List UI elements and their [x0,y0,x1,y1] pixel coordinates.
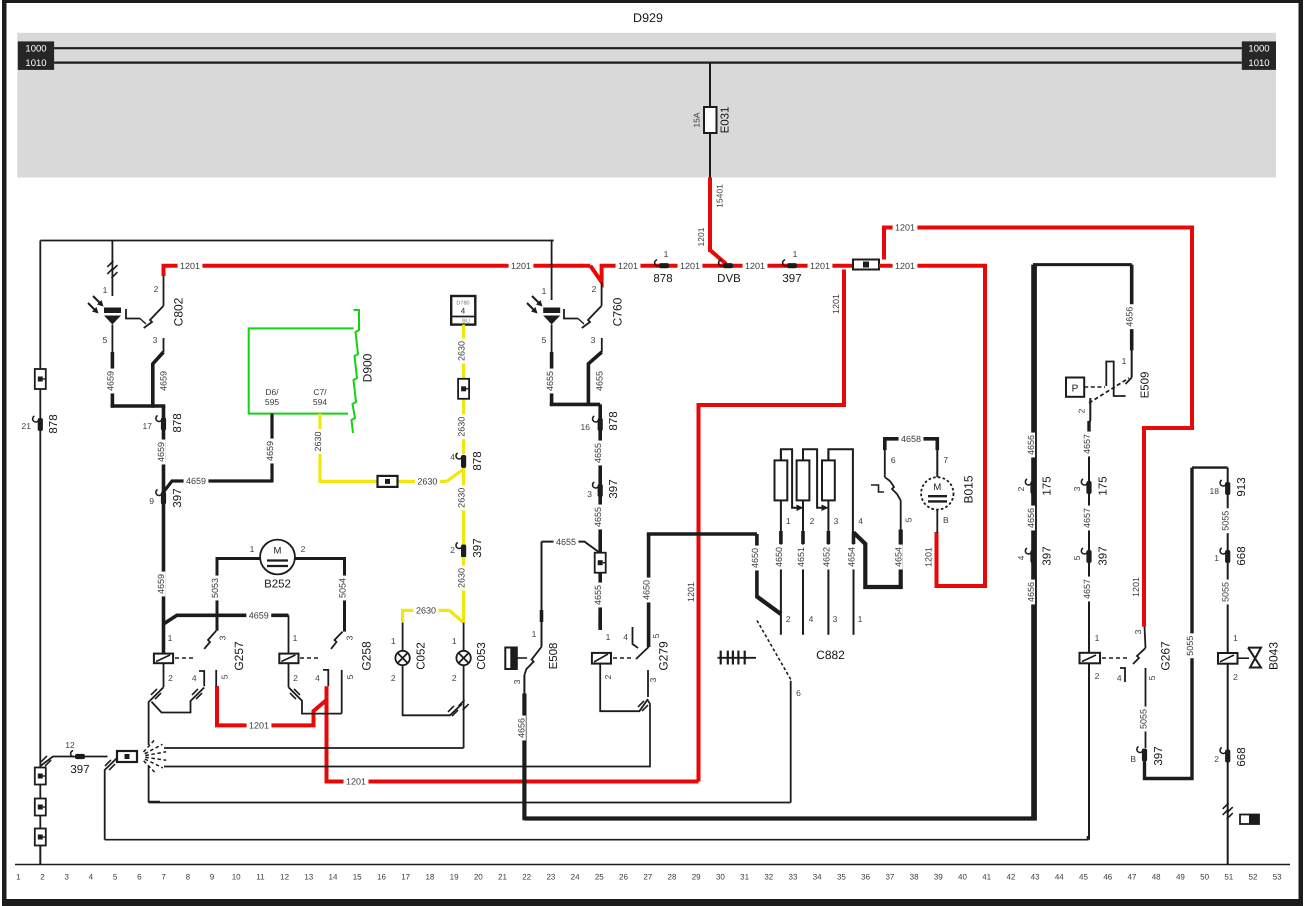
svg-text:P: P [1072,384,1079,395]
svg-text:1: 1 [664,249,669,259]
svg-text:913: 913 [1236,477,1248,496]
B015 pin 7 wire [936,448,938,477]
wire 4659 junction horizontal [111,404,166,408]
svg-text:46: 46 [1103,873,1112,882]
label 4656 [1025,580,1035,605]
connector 397 pin 1 on red line [787,263,797,268]
svg-text:45: 45 [1079,873,1088,882]
svg-text:36: 36 [861,873,870,882]
svg-text:3: 3 [587,489,592,499]
svg-text:25: 25 [595,873,604,882]
wire to E508 pin 1 [541,542,543,647]
svg-text:4: 4 [461,307,466,316]
svg-text:2: 2 [450,545,455,555]
svg-text:31: 31 [740,873,749,882]
svg-text:2630: 2630 [457,488,467,508]
svg-text:15401: 15401 [715,184,725,208]
label 5055 [1138,707,1148,732]
svg-text:4656: 4656 [1026,435,1036,455]
svg-text:14: 14 [329,873,338,882]
svg-text:18: 18 [1210,486,1220,496]
connector pin 18 [1225,482,1230,495]
label 4656 [1025,506,1035,531]
label 4655 branch [554,536,579,546]
svg-text:3: 3 [591,335,596,345]
svg-text:B015: B015 [961,475,975,503]
G279 bottom link wire [600,664,648,712]
label 2630 [415,476,440,486]
label 2630 [456,566,466,591]
svg-text:9: 9 [210,873,215,882]
svg-text:C882: C882 [816,648,845,662]
label 4650 [749,546,759,571]
connector DVB on red line [723,263,733,268]
label 5055 [1220,508,1230,533]
svg-text:1: 1 [103,285,108,295]
svg-text:4655: 4655 [593,507,603,527]
rail B wire [164,701,650,767]
svg-text:3: 3 [345,635,355,640]
wire 4655 from C760 pin 5 [550,352,554,406]
G257 switch arm [204,631,216,649]
E509 pin 2 wire [1089,398,1090,653]
inline connector slashes [1223,803,1229,809]
svg-text:5: 5 [542,335,547,345]
svg-text:2: 2 [603,674,613,679]
connector 397 pin 4 [1030,550,1035,563]
wire 4650 top link [647,532,757,536]
junction box on 4655 [595,553,606,573]
wire 4650 right vertical [755,534,759,598]
wire from bus 1010 to fuse E031 [709,63,711,107]
svg-text:397: 397 [782,273,801,285]
svg-text:D6/: D6/ [265,387,279,397]
connector 175 pin 3 [1086,481,1091,494]
svg-text:4659: 4659 [159,371,169,391]
svg-text:39: 39 [934,873,943,882]
svg-text:C760: C760 [610,297,624,326]
bus wire 1010 [54,61,1242,63]
svg-text:1201: 1201 [895,223,915,233]
svg-text:5: 5 [1147,675,1157,680]
svg-text:G267: G267 [1158,641,1172,671]
wire fuse to gray band edge [709,133,711,178]
label 4659 [155,572,165,597]
svg-text:33: 33 [789,873,798,882]
G279 relay coil [592,653,611,664]
svg-text:5054: 5054 [337,578,347,598]
wire 2630 yellow from D900 C7 [318,414,321,483]
svg-text:BU: BU [462,319,470,325]
svg-text:17: 17 [401,873,410,882]
label 4659 [155,440,165,465]
svg-text:21: 21 [498,873,507,882]
svg-text:1: 1 [452,636,457,646]
G279 pin 1 [598,613,602,628]
label 1201 [247,720,272,730]
svg-text:M: M [274,546,282,557]
wire C052 pin 2 [403,665,462,715]
G257 coil link dashed [175,657,196,659]
G257 relay coil [154,654,173,664]
svg-text:2630: 2630 [313,431,323,451]
connector 397 pin B [1142,749,1147,762]
red wire 1201 G257-G258 link [217,686,327,725]
svg-text:4650: 4650 [774,547,784,567]
svg-text:2630: 2630 [417,477,437,487]
wire 5055 loop [1145,468,1193,779]
svg-text:3: 3 [1072,486,1082,491]
svg-text:2630: 2630 [416,606,436,616]
G257 pin2-pin4 link [152,688,205,713]
svg-text:B252: B252 [264,579,291,591]
D900 shield zigzag [352,310,360,433]
lamp C052 [402,623,404,651]
G267 coil link dashed [1102,657,1128,659]
svg-text:35: 35 [837,873,846,882]
svg-text:B: B [1130,754,1136,764]
wire drop to C760 [551,240,553,300]
wire 4652 down to C882 [827,500,829,634]
svg-text:13: 13 [304,873,313,882]
label 2630 [456,485,466,510]
wire 2630 yellow lower [462,557,465,623]
junction box at bottom right [1240,815,1259,825]
C760 LED photodiode symbol [543,308,560,314]
connector 878 pin 4 [461,455,466,468]
wire 4654 down to C882 [853,532,855,634]
svg-text:397: 397 [1153,746,1165,765]
scale line [15,864,1290,866]
G258 pin 5 contact [341,670,343,714]
svg-text:2630: 2630 [457,417,467,437]
label 4659 [264,439,274,464]
svg-text:4656: 4656 [1125,307,1135,327]
wire drop to C802 with inline connector [111,241,113,297]
svg-text:B: B [943,515,949,525]
svg-text:397: 397 [472,538,484,557]
svg-text:52: 52 [1249,873,1258,882]
svg-text:2: 2 [391,673,396,683]
svg-text:595: 595 [265,397,279,407]
svg-text:1201: 1201 [680,261,700,271]
svg-text:2: 2 [592,284,597,294]
svg-text:DVB: DVB [717,273,741,285]
connector 397 pin 9 [161,492,166,505]
svg-text:C802: C802 [171,297,185,326]
svg-text:397: 397 [1042,546,1054,565]
G267 relay coil [1080,653,1101,664]
svg-text:4655: 4655 [593,585,603,605]
B015 pin B wire [936,510,938,533]
svg-text:1201: 1201 [810,261,830,271]
chain wire R1 to wire 2 [781,449,800,508]
svg-text:1010: 1010 [25,58,46,69]
resistor R2 [802,449,804,460]
svg-text:4: 4 [1016,555,1026,560]
svg-text:27: 27 [643,873,652,882]
label 4655 [544,369,554,394]
B015 switch pin 5 wire [900,500,902,532]
wire 4656 column [1031,265,1035,819]
harness fan symbol [144,739,156,752]
svg-text:4659: 4659 [106,371,116,391]
svg-text:3: 3 [834,516,839,526]
connector 668 pin 1 [1225,550,1230,563]
svg-text:1: 1 [1214,553,1219,563]
svg-text:1: 1 [16,873,21,882]
svg-text:4: 4 [809,614,814,624]
svg-text:10: 10 [232,873,241,882]
G279 pin 4 hook [633,627,639,648]
label 1201 bottom [344,776,369,786]
svg-text:2: 2 [168,673,173,683]
svg-text:1: 1 [168,633,173,643]
wire 4650 from G279 pin 5 [647,534,651,647]
svg-text:2630: 2630 [457,568,467,588]
svg-text:175: 175 [1042,476,1054,495]
svg-text:2: 2 [154,284,159,294]
svg-text:5: 5 [220,674,230,679]
svg-text:20: 20 [474,873,483,882]
motor B015 dashed circle [921,477,953,509]
svg-text:2: 2 [1095,671,1100,681]
svg-text:1201: 1201 [924,547,934,567]
svg-text:5: 5 [1072,555,1082,560]
svg-text:3: 3 [512,679,522,684]
wire 4655 junction horizontal [550,403,600,407]
C802 actuator bracket [126,309,140,319]
G258 coil link dashed [300,657,321,659]
svg-text:4657: 4657 [1082,434,1092,454]
svg-text:4: 4 [315,673,320,683]
svg-text:D929: D929 [633,11,663,25]
red wire 1201 bottom rail [327,700,699,782]
G257 pin 4 hook [199,671,204,686]
G257 pin 2 wire to fan [163,663,165,687]
svg-text:32: 32 [764,873,773,882]
label 4659 branch [184,475,209,485]
wire 4655 main down [598,404,602,630]
svg-text:16: 16 [377,873,386,882]
svg-text:397: 397 [1098,546,1110,565]
svg-text:47: 47 [1128,873,1137,882]
G258 pin 1 wire [288,615,290,653]
svg-text:878: 878 [472,451,484,470]
svg-text:4659: 4659 [249,611,269,621]
label 4650 [641,578,651,603]
svg-text:51: 51 [1224,873,1233,882]
svg-text:4: 4 [1117,673,1122,683]
junction box before fan [117,751,137,762]
junction box on left rail 4 [35,829,46,846]
svg-text:50: 50 [1200,873,1209,882]
svg-text:E509: E509 [1140,372,1152,399]
label 2630 [414,605,439,615]
svg-text:3: 3 [833,614,838,624]
connector 668 pin 2 [1225,750,1230,763]
wire 397-12 to junction box [85,756,108,758]
C760 LED wire [551,325,553,353]
B043 horn symbol [1238,657,1250,659]
svg-text:668: 668 [1236,546,1248,565]
svg-text:397: 397 [608,479,620,498]
svg-text:37: 37 [885,873,894,882]
svg-text:1: 1 [1122,356,1127,366]
svg-text:7: 7 [943,455,948,465]
E509 P box [1066,378,1084,397]
resistor R1 [780,449,782,460]
svg-text:1: 1 [793,249,798,259]
top wire to E509 [1033,263,1132,266]
C882 comb contact symbol [720,651,722,665]
wire 4659 LED branch [111,352,115,408]
svg-text:2: 2 [40,873,45,882]
fan vertical to rail C [149,766,160,802]
svg-text:6: 6 [796,688,801,698]
svg-text:3: 3 [218,635,228,640]
label 4656 at E509 [1124,304,1134,329]
svg-text:4: 4 [192,673,197,683]
svg-text:1: 1 [1095,633,1100,643]
svg-text:4654: 4654 [894,547,904,567]
svg-text:D900: D900 [360,353,374,382]
svg-text:42: 42 [1006,873,1015,882]
label 1201 [509,260,534,270]
svg-text:48: 48 [1152,873,1161,882]
connector 878 pin 16 [598,418,603,431]
label 1201 [893,260,918,270]
svg-text:1201: 1201 [249,721,269,731]
svg-text:53: 53 [1273,873,1282,882]
G267 pin 5 wire [1145,668,1147,748]
svg-text:34: 34 [813,873,822,882]
svg-text:23: 23 [546,873,555,882]
label 5055 [1220,580,1230,605]
svg-text:4: 4 [89,873,94,882]
label 4655 [592,583,602,608]
svg-text:4655: 4655 [593,443,603,463]
svg-text:4659: 4659 [186,476,206,486]
bus label box left [18,41,54,70]
G267 pin 3 wire [1145,627,1146,648]
junction box on 2630 [378,476,398,487]
svg-text:4656: 4656 [517,718,527,738]
svg-text:M: M [933,482,941,493]
svg-text:4650: 4650 [642,580,652,600]
svg-text:1201: 1201 [180,261,200,271]
E509 pin 1 wire [1131,265,1133,378]
svg-text:4659: 4659 [265,441,275,461]
label 1201 at G267 [1130,575,1140,600]
label 4657 [1081,577,1091,602]
wire 4654 branch to B015 switch [854,530,901,588]
svg-text:21: 21 [22,421,32,431]
svg-text:4659: 4659 [156,442,166,462]
wire 5053 from B252 pin 1 [217,559,260,631]
svg-text:28: 28 [668,873,677,882]
C760 actuator bracket [564,309,578,319]
svg-text:43: 43 [1031,873,1040,882]
E509 mechanism [1106,362,1125,397]
wire 4656 from E508 pin 3 [523,675,525,694]
svg-text:2: 2 [301,544,306,554]
motor B252 [260,540,295,575]
rail C wire [149,802,791,804]
B015 switch arm [890,481,901,500]
G279 switch arm [636,647,649,659]
svg-text:C052: C052 [416,642,428,670]
svg-text:12: 12 [280,873,289,882]
connector 878 pin 1 on red line [659,263,669,268]
label 5054 [337,576,347,601]
svg-text:1: 1 [250,544,255,554]
E508 actuator box [505,648,517,670]
connector 397 pin 5 [1086,550,1091,563]
svg-text:2: 2 [1214,754,1219,764]
svg-text:5: 5 [345,674,355,679]
left rail to scale line [39,845,41,865]
connector 397 pin 12 [75,754,85,759]
wire 4659 main down [162,406,166,655]
svg-text:4655: 4655 [545,371,555,391]
wire 4655 branch to E508 [542,542,601,553]
svg-text:49: 49 [1176,873,1185,882]
svg-text:878: 878 [653,273,672,285]
svg-text:1: 1 [606,632,611,642]
svg-text:5: 5 [103,335,108,345]
label 4657 [1081,506,1091,531]
svg-text:5053: 5053 [210,578,220,598]
svg-text:1: 1 [293,633,298,643]
svg-text:C053: C053 [476,642,488,670]
svg-text:G258: G258 [359,641,373,671]
svg-text:4651: 4651 [796,547,806,567]
svg-text:1: 1 [786,516,791,526]
C802 LED photodiode symbol [104,308,121,314]
wire 2630 branch to C052 [403,610,450,622]
svg-text:6: 6 [891,455,896,465]
svg-text:1000: 1000 [1248,44,1269,55]
svg-text:5055: 5055 [1221,511,1231,531]
connector 397 pin 2 [461,545,466,558]
svg-text:4656: 4656 [1026,582,1036,602]
svg-text:878: 878 [172,413,184,432]
E509 P link dashed [1084,386,1105,388]
wire 4659 from C802 pin 3 [163,338,165,352]
svg-text:4659: 4659 [156,574,166,594]
svg-text:4: 4 [623,632,628,642]
svg-text:3: 3 [64,873,69,882]
svg-text:17: 17 [143,421,153,431]
G257 pin 5 contact [215,670,217,687]
lamp C053 [463,623,465,651]
svg-text:878: 878 [48,414,60,433]
svg-text:4657: 4657 [1082,508,1092,528]
label 2630 [312,429,322,454]
wire 4651 down to C882 [802,500,804,634]
chain wire R2 to wire 3 [803,449,825,508]
wire 913 column [1227,468,1229,865]
label 4657 [1081,432,1091,457]
svg-text:24: 24 [571,873,580,882]
svg-text:878: 878 [608,411,620,430]
G258 pin 4 hook [323,670,328,686]
svg-text:4652: 4652 [821,547,831,567]
svg-text:1201: 1201 [1131,577,1141,597]
svg-text:4657: 4657 [1082,579,1092,599]
svg-text:397: 397 [70,764,89,776]
